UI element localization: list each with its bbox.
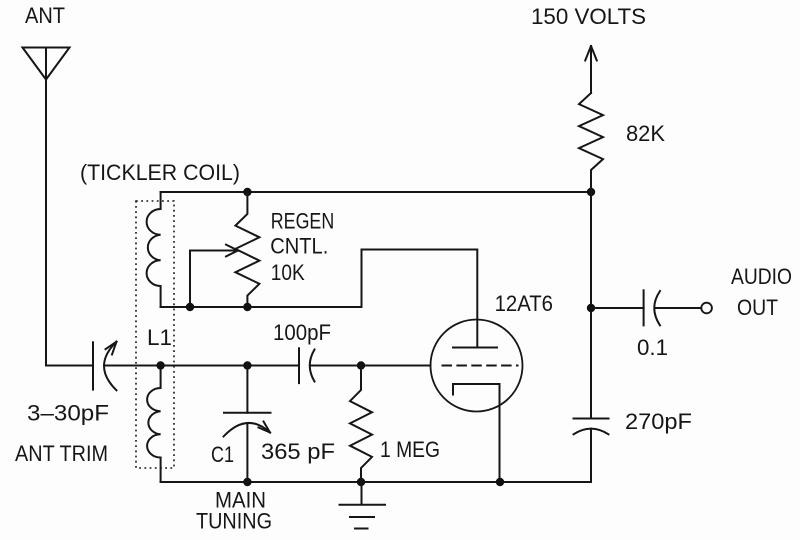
wire antenna lead down to tuning rail: [46, 80, 93, 366]
tube grid (dashed): [442, 365, 519, 367]
tube 12AT6 envelope: [431, 320, 523, 412]
svg-text:ANT TRIM: ANT TRIM: [15, 441, 108, 466]
capacitor 270pF: [574, 419, 609, 483]
capacitor 100pF: [299, 348, 315, 383]
potentiometer REGEN CNTL 10K: [235, 192, 259, 307]
svg-text:100pF: 100pF: [273, 320, 331, 345]
svg-text:1 MEG: 1 MEG: [380, 437, 440, 462]
node audio tap junction: [587, 304, 595, 312]
svg-text:12AT6: 12AT6: [495, 291, 553, 316]
node C1 top junction: [243, 361, 251, 369]
ground: [340, 482, 386, 529]
node C1 bottom junction: [243, 478, 251, 486]
svg-text:CNTL.: CNTL.: [270, 233, 328, 258]
inductor L1 main winding: [147, 366, 161, 482]
variable capacitor C1 365 pF: [224, 366, 271, 483]
svg-text:0.1: 0.1: [637, 335, 668, 360]
wire B+ rail down to 270pF: [590, 192, 592, 419]
svg-text:OUT: OUT: [737, 295, 778, 320]
potentiometer wiper arrow: [190, 245, 238, 307]
capacitor 0.1 coupling: [591, 290, 701, 325]
wire tuning rail left segment (trim cap to 100pF): [104, 365, 299, 367]
audio out terminal: [701, 303, 712, 314]
inductor tickler winding: [147, 192, 161, 307]
resistor 82K: [579, 93, 603, 192]
node pot top junction: [243, 188, 251, 196]
node wiper junction: [186, 303, 194, 311]
svg-text:REGEN: REGEN: [271, 208, 334, 233]
wire pot bottom to tube plate: [161, 250, 478, 348]
wire bottom ground rail: [161, 481, 591, 483]
inductor L1 dotted core box: [136, 201, 174, 468]
svg-text:ANT: ANT: [25, 3, 65, 28]
antenna ANT: [23, 48, 70, 80]
svg-text:TUNING: TUNING: [196, 509, 272, 534]
node grid resistor junction: [357, 361, 365, 369]
wire top rail (tickler to B+): [161, 191, 591, 193]
node L1 top junction: [156, 361, 164, 369]
node ground junction: [357, 478, 365, 486]
supply arrow 150 VOLTS: [585, 46, 597, 93]
svg-text:(TICKLER COIL): (TICKLER COIL): [80, 160, 240, 185]
svg-text:82K: 82K: [626, 121, 665, 146]
node B+ junction: [587, 188, 595, 196]
svg-text:AUDIO: AUDIO: [731, 264, 792, 289]
wire tuning rail right segment (100pF to tube grid): [310, 365, 431, 367]
svg-text:270pF: 270pF: [625, 409, 692, 434]
svg-text:10K: 10K: [271, 260, 305, 285]
node cathode junction: [496, 478, 504, 486]
trimmer capacitor 3-30pF ANT TRIM: [93, 342, 117, 391]
wire cathode lead: [499, 384, 501, 482]
svg-text:L1: L1: [147, 325, 172, 350]
tube plate: [453, 347, 497, 349]
svg-text:3–30pF: 3–30pF: [27, 401, 109, 426]
svg-text:C1: C1: [211, 442, 234, 467]
node pot bottom junction: [243, 303, 251, 311]
tube cathode: [453, 384, 500, 395]
svg-text:365 pF: 365 pF: [261, 439, 335, 464]
resistor 1 MEG: [350, 366, 372, 483]
svg-text:150 VOLTS: 150 VOLTS: [531, 4, 646, 29]
